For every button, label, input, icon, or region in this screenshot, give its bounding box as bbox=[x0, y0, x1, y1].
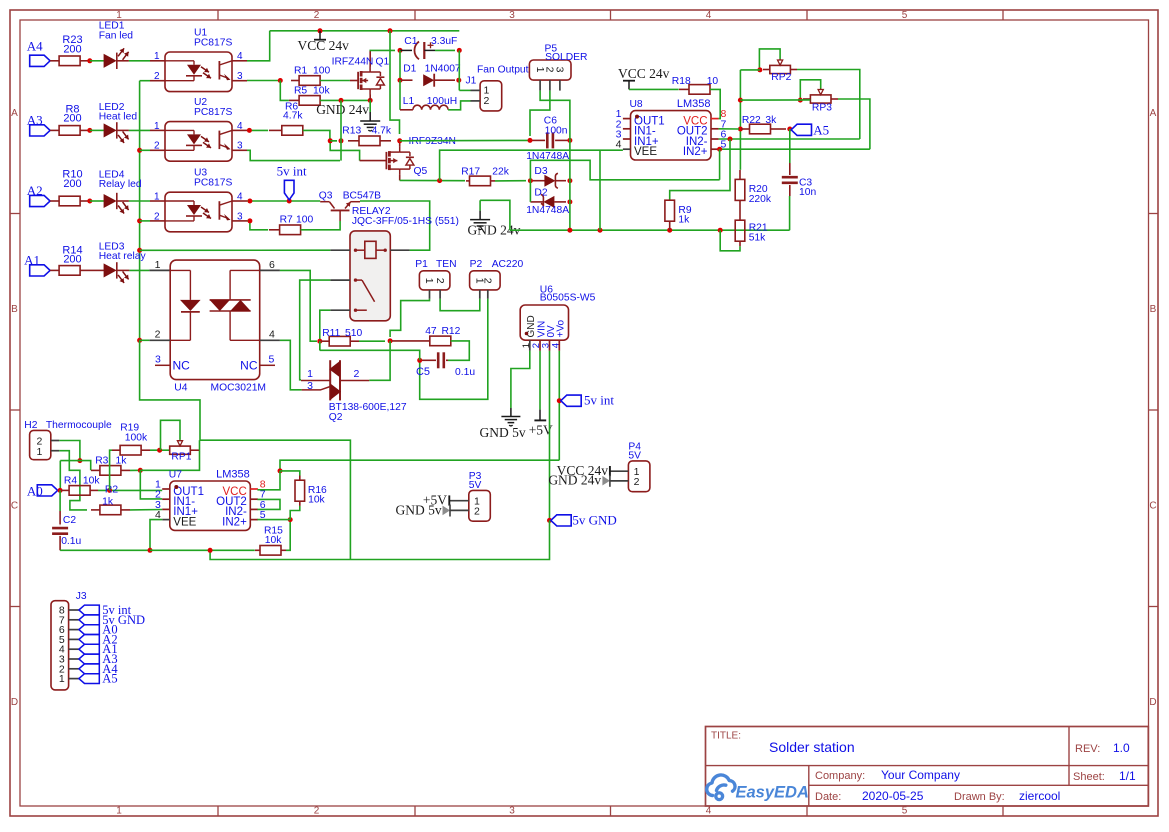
svg-text:3: 3 bbox=[554, 67, 566, 73]
wire R10 to LED4 bbox=[90, 200, 104, 202]
resistor R20 bbox=[735, 170, 772, 205]
diode D1 1N4007 bbox=[400, 63, 461, 86]
power flag VCC 24v (P4) bbox=[557, 463, 610, 478]
svg-text:2: 2 bbox=[314, 10, 320, 21]
svg-text:2: 2 bbox=[484, 95, 490, 107]
wire U3 pin2 from trunk bbox=[140, 220, 150, 222]
net flag 5v int (above Q3) bbox=[277, 163, 307, 200]
wire R11 right to snubber node bbox=[359, 340, 385, 342]
svg-text:4: 4 bbox=[237, 51, 243, 62]
svg-text:1: 1 bbox=[37, 446, 43, 458]
wire C1-D1 right vertical bbox=[458, 50, 460, 90]
wire R19 left down to pin1 wire bbox=[110, 450, 112, 490]
svg-text:RP2: RP2 bbox=[771, 72, 791, 83]
svg-text:R7: R7 bbox=[280, 214, 293, 225]
Sheet label bbox=[1073, 771, 1105, 783]
svg-text:1: 1 bbox=[154, 191, 160, 202]
wire R3 right to IN1- line bbox=[130, 469, 140, 471]
Drawn By value bbox=[1019, 789, 1060, 803]
svg-text:A: A bbox=[11, 108, 18, 119]
wire R6 to R13 left bbox=[303, 130, 337, 140]
wire A0 node down to C2 bbox=[59, 490, 61, 524]
Drawn By label bbox=[954, 791, 1005, 803]
wire snubber node down to Q2 T2 bbox=[369, 341, 390, 380]
svg-text:C2: C2 bbox=[63, 515, 76, 526]
resistor R6 bbox=[269, 101, 303, 135]
wire R4 right to U7 pin1 bbox=[98, 489, 162, 491]
wire C6 right rail down to GND rail bbox=[569, 136, 571, 230]
svg-text:RP3: RP3 bbox=[812, 102, 832, 113]
svg-text:Date:: Date: bbox=[815, 791, 841, 803]
resistor R16 bbox=[295, 476, 327, 506]
wire P1 pin2 to P2 pin1 bbox=[440, 299, 480, 311]
wire R1 to Q1 gate bbox=[320, 80, 358, 82]
svg-text:A1: A1 bbox=[24, 253, 40, 268]
svg-text:A5: A5 bbox=[102, 672, 117, 686]
resistor R23 bbox=[59, 34, 90, 65]
junction rail at rail2 jog bbox=[208, 548, 213, 553]
optocoupler U2 bbox=[150, 97, 247, 161]
resistor R17 bbox=[461, 166, 510, 185]
junction RP3 left bbox=[798, 98, 803, 103]
junction IN1- node bbox=[138, 468, 143, 473]
junction D1 right bbox=[456, 78, 461, 83]
svg-text:3: 3 bbox=[509, 806, 515, 817]
svg-text:2: 2 bbox=[314, 806, 320, 817]
Sheet value 1/1 bbox=[1119, 769, 1136, 783]
Date label bbox=[815, 791, 841, 803]
junction D1 left bbox=[398, 78, 403, 83]
dc-dc converter U6 B0505S-W5 bbox=[520, 284, 595, 351]
svg-text:Company:: Company: bbox=[815, 770, 865, 782]
svg-text:GND 5v: GND 5v bbox=[395, 502, 441, 517]
svg-text:J1: J1 bbox=[466, 75, 477, 86]
svg-text:2: 2 bbox=[154, 71, 160, 82]
svg-text:3: 3 bbox=[155, 353, 161, 365]
wire RP3 feed from trunk bbox=[740, 99, 810, 101]
svg-text:51k: 51k bbox=[749, 233, 766, 244]
wire relay coil left to trunk bbox=[140, 249, 331, 251]
junction after R23 bbox=[87, 58, 92, 63]
junction C6 left bbox=[528, 138, 533, 143]
svg-text:10k: 10k bbox=[83, 476, 100, 487]
junction Q1 source bbox=[368, 98, 373, 103]
svg-text:VCC 24v: VCC 24v bbox=[618, 66, 670, 81]
svg-text:BC547B: BC547B bbox=[343, 190, 381, 201]
svg-text:2: 2 bbox=[474, 505, 480, 517]
svg-text:PC817S: PC817S bbox=[194, 178, 232, 189]
svg-text:Drawn By:: Drawn By: bbox=[954, 791, 1005, 803]
wire R19 right to RP1 bbox=[150, 449, 170, 451]
svg-text:AC220: AC220 bbox=[492, 259, 524, 270]
junction rail at C6 branch bbox=[567, 228, 572, 233]
svg-text:LM358: LM358 bbox=[216, 469, 250, 481]
svg-text:Solder station: Solder station bbox=[769, 739, 855, 755]
wire U2 pin2 from trunk bbox=[140, 149, 150, 151]
capacitor C5 bbox=[416, 352, 475, 378]
svg-text:2: 2 bbox=[634, 476, 640, 488]
power flag GND 24v (P4) bbox=[548, 473, 610, 488]
svg-text:A0: A0 bbox=[27, 483, 43, 498]
zener D2 1N4748A bbox=[526, 187, 569, 215]
potentiometer RP3 bbox=[803, 89, 838, 114]
svg-text:C: C bbox=[11, 501, 18, 512]
wire relay common to Q2 T1 bbox=[300, 280, 331, 380]
svg-text:R13: R13 bbox=[342, 126, 361, 137]
svg-text:R22: R22 bbox=[742, 115, 761, 126]
wire P2 pin2 to C5 left bbox=[420, 299, 488, 400]
svg-text:U8: U8 bbox=[630, 99, 643, 110]
svg-text:5: 5 bbox=[269, 353, 275, 365]
wire U6 pin4 +Vo down to rail1 bbox=[558, 351, 560, 460]
junction after R10 bbox=[87, 199, 92, 204]
junction trunk at relay coil branch bbox=[137, 248, 142, 253]
junction H2 pin2 node bbox=[77, 458, 82, 463]
junction U1 pin3 node bbox=[278, 78, 283, 83]
wire U3 pin3 to R7 bbox=[247, 221, 268, 230]
junction rail at R9 bbox=[667, 228, 672, 233]
svg-text:5v GND: 5v GND bbox=[572, 512, 616, 527]
svg-text:4: 4 bbox=[237, 121, 243, 132]
wire U7 pin7-pin6 follower loop bbox=[257, 499, 280, 509]
wire A5 node down through C3 to rail bbox=[789, 129, 791, 230]
wire IN2+ sense route bbox=[530, 160, 719, 180]
capacitor C1 bbox=[400, 36, 457, 59]
wire C5 left up to R11 row bbox=[320, 350, 420, 360]
net flag A2 bbox=[27, 183, 50, 206]
svg-text:IN2+: IN2+ bbox=[222, 516, 247, 528]
svg-text:1: 1 bbox=[116, 10, 122, 21]
wire RP1 wiper loop bbox=[161, 420, 181, 450]
svg-text:1: 1 bbox=[116, 806, 122, 817]
net flag A4 bbox=[27, 39, 50, 67]
junction 5v int tap right bbox=[557, 398, 562, 403]
connector J3 with net flags bbox=[51, 591, 145, 690]
svg-text:100uH: 100uH bbox=[427, 96, 457, 107]
svg-text:VCC 24v: VCC 24v bbox=[298, 38, 350, 53]
svg-text:4: 4 bbox=[269, 329, 275, 341]
svg-text:IRFZ44N: IRFZ44N bbox=[332, 56, 374, 67]
svg-text:2020-05-25: 2020-05-25 bbox=[862, 789, 924, 803]
svg-text:220k: 220k bbox=[749, 194, 772, 205]
svg-text:1k: 1k bbox=[116, 455, 128, 466]
wire drain node up to VEE feed bbox=[440, 150, 623, 180]
svg-text:R3: R3 bbox=[95, 455, 108, 466]
svg-text:3: 3 bbox=[237, 71, 243, 82]
power flag +5V (P3) bbox=[423, 492, 449, 507]
wire U7 pin4 to rail bbox=[150, 520, 162, 551]
net flag 5v int (right) bbox=[561, 393, 615, 408]
svg-text:A3: A3 bbox=[27, 113, 43, 128]
junction rail at U8 VEE branch bbox=[598, 228, 603, 233]
wire U1 pin2 from trunk bbox=[140, 80, 150, 82]
svg-text:1N4748A: 1N4748A bbox=[526, 205, 569, 216]
junction Q5 drain node bbox=[437, 178, 442, 183]
svg-text:A2: A2 bbox=[27, 183, 43, 198]
potentiometer RP2 bbox=[763, 59, 797, 83]
wire P5 pin2 to C6 left bbox=[530, 91, 550, 136]
transistor Q5 IRF9Z34N bbox=[360, 136, 456, 181]
svg-text:2: 2 bbox=[155, 329, 161, 341]
junction R13 right / Q5 source bbox=[397, 138, 402, 143]
svg-text:B: B bbox=[11, 304, 18, 315]
svg-text:10n: 10n bbox=[799, 187, 816, 198]
junction U2 pin4 node bbox=[247, 128, 252, 133]
wire H2 pin1 route bbox=[59, 451, 87, 510]
wire U1 pin3 to R1 bbox=[247, 80, 280, 82]
junction R11 left node bbox=[317, 339, 322, 344]
svg-text:R4: R4 bbox=[64, 476, 77, 487]
title text Solder station bbox=[769, 739, 855, 755]
svg-text:200: 200 bbox=[63, 44, 81, 56]
wire LED1 to U1 pin1 bbox=[117, 60, 150, 62]
transistor Q3 BC547B bbox=[319, 190, 381, 221]
svg-text:4: 4 bbox=[706, 806, 712, 817]
wire GND 24v rail bbox=[510, 229, 790, 231]
power flag GND 5v (U6) bbox=[480, 408, 526, 440]
svg-text:100n: 100n bbox=[545, 125, 568, 136]
svg-text:C: C bbox=[1149, 501, 1156, 512]
wire R15 right up to pin5 bbox=[286, 520, 290, 551]
wire Q1 drain up bbox=[369, 49, 372, 51]
wire R13 node zigzag to Q5 gate bbox=[330, 141, 359, 161]
svg-text:2: 2 bbox=[354, 368, 360, 380]
svg-text:A4: A4 bbox=[27, 39, 43, 54]
LED LED2 bbox=[99, 102, 138, 143]
wire D1 left down to L1 bbox=[399, 80, 401, 110]
wire R8 to LED2 bbox=[90, 129, 104, 131]
svg-text:47: 47 bbox=[425, 326, 437, 337]
svg-text:JQC-3FF/05-1HS (551): JQC-3FF/05-1HS (551) bbox=[352, 216, 459, 227]
wire U2 pin3 to Q5 gate line bbox=[247, 150, 340, 160]
svg-text:2: 2 bbox=[434, 278, 446, 284]
svg-text:P1: P1 bbox=[415, 259, 428, 270]
resistor R14 bbox=[59, 244, 95, 275]
svg-text:22k: 22k bbox=[492, 166, 509, 177]
svg-text:4.7k: 4.7k bbox=[283, 111, 303, 122]
junction trunk at RP3 feed bbox=[738, 98, 743, 103]
wire U7 pin5 to node bbox=[257, 519, 290, 521]
resistor R10 bbox=[59, 169, 90, 206]
wire U8 pin6 row bbox=[719, 138, 860, 140]
net flag A0 bbox=[27, 483, 58, 498]
svg-text:510: 510 bbox=[345, 328, 362, 339]
resistor R3 bbox=[91, 455, 130, 475]
wire RP1 right up to GND line bbox=[199, 440, 202, 450]
LED D? LED1 bbox=[99, 21, 134, 69]
svg-text:MOC3021M: MOC3021M bbox=[211, 383, 267, 394]
junction C5 left bbox=[417, 358, 422, 363]
svg-text:Thermocouple: Thermocouple bbox=[46, 420, 112, 431]
wire VCC rail to Q5 source bbox=[390, 31, 400, 134]
LED LED4 bbox=[99, 169, 142, 213]
EasyEDA logo bbox=[707, 775, 809, 802]
svg-text:J3: J3 bbox=[76, 591, 87, 602]
resistor R15 bbox=[255, 526, 286, 556]
wire R23 to LED1 bbox=[90, 60, 104, 62]
svg-text:Relay led: Relay led bbox=[99, 179, 142, 190]
Company label bbox=[815, 770, 865, 782]
svg-text:+Vo: +Vo bbox=[556, 320, 567, 338]
wire C1 branch left bbox=[370, 49, 396, 51]
svg-text:R5: R5 bbox=[294, 86, 307, 97]
wire IN1- node to U7 pin2 bbox=[140, 470, 162, 499]
svg-text:4: 4 bbox=[706, 10, 712, 21]
wire R5 to junctions bbox=[320, 99, 370, 101]
power flag VCC 24v (U8) bbox=[618, 66, 670, 89]
svg-text:C5: C5 bbox=[416, 366, 430, 378]
wire RP3 right to pin5 riser bbox=[838, 99, 870, 149]
wire LED2 to U2 pin1 bbox=[117, 129, 150, 131]
svg-text:5V: 5V bbox=[469, 480, 482, 491]
svg-text:5: 5 bbox=[902, 10, 908, 21]
svg-text:IN2+: IN2+ bbox=[683, 146, 708, 158]
wire RP3 wiper loop bbox=[800, 80, 820, 100]
wire Q3 emitter to relay coil bbox=[360, 201, 430, 250]
wire A1 to R14 bbox=[50, 269, 59, 271]
svg-text:0.1u: 0.1u bbox=[455, 367, 475, 378]
zener D3 1N4748A bbox=[526, 151, 569, 188]
resistor R21 bbox=[735, 200, 768, 246]
potentiometer RP1 bbox=[170, 440, 192, 463]
relay RELAY2 JQC-3FF/05-1HS bbox=[330, 206, 459, 321]
svg-text:1: 1 bbox=[154, 121, 160, 132]
resistor R22 bbox=[741, 115, 786, 134]
wire R14 to LED3 bbox=[95, 269, 104, 271]
wire VCC 24v top rail bbox=[270, 30, 460, 32]
junction R5 row at R13 branch bbox=[339, 98, 344, 103]
wire U4 pin4 to Q2 gate bbox=[280, 340, 302, 390]
connector P2 AC220 bbox=[470, 259, 524, 299]
junction VCC rail at VCC flag bbox=[318, 28, 323, 33]
wire LED4 to U3 pin1 bbox=[117, 200, 150, 202]
capacitor C2 bbox=[52, 515, 81, 547]
op-amp U8 LM358 bbox=[616, 98, 727, 160]
power flag GND 24v (under R5) bbox=[316, 100, 380, 131]
junction C1 left bbox=[398, 48, 403, 53]
capacitor C6 bbox=[531, 116, 568, 149]
junction rail at R21 loop bbox=[718, 228, 723, 233]
svg-text:3: 3 bbox=[237, 141, 243, 152]
junction trunk at U3 pin2 bbox=[137, 218, 142, 223]
svg-text:4: 4 bbox=[616, 139, 622, 151]
junction rail at VEE bbox=[148, 548, 153, 553]
svg-text:EasyEDA: EasyEDA bbox=[736, 784, 809, 802]
wire Q5 drain row bbox=[400, 179, 465, 181]
svg-text:Fan Output: Fan Output bbox=[477, 65, 529, 76]
svg-text:5V: 5V bbox=[628, 451, 641, 462]
svg-text:4.7k: 4.7k bbox=[372, 126, 392, 137]
junction U7 pin5 node bbox=[288, 517, 293, 522]
wire R18 to U8 pin8 bbox=[710, 89, 720, 118]
svg-text:1: 1 bbox=[155, 259, 161, 271]
junction RP1 left bbox=[157, 448, 162, 453]
wire pin6 node to R9 top bbox=[670, 139, 730, 200]
wire 5v GND flag node bbox=[547, 518, 552, 523]
resistor R11 bbox=[321, 328, 362, 346]
wire VCC node to R16 top bbox=[280, 471, 300, 476]
svg-text:RP1: RP1 bbox=[171, 451, 191, 462]
wire U6 pin2 to +5V bbox=[539, 351, 541, 410]
svg-text:100k: 100k bbox=[125, 432, 148, 443]
wire LED3 to U4 pin1 bbox=[117, 269, 170, 271]
svg-text:GND 24v: GND 24v bbox=[316, 102, 369, 117]
svg-text:NC: NC bbox=[240, 359, 258, 373]
svg-text:3: 3 bbox=[509, 10, 515, 21]
REV label bbox=[1075, 743, 1100, 755]
junction trunk at R22 left bbox=[738, 127, 743, 132]
op-amp U7 LM358 bbox=[155, 469, 266, 531]
svg-text:GND 24v: GND 24v bbox=[548, 473, 601, 488]
wire RP2 wiper loop bbox=[759, 49, 780, 70]
svg-text:NC: NC bbox=[173, 359, 191, 373]
svg-text:Sheet:: Sheet: bbox=[1073, 771, 1105, 783]
junction trunk at U2 pin2 bbox=[137, 148, 142, 153]
resistor R5 bbox=[289, 86, 330, 106]
wire H2 pin2 route bbox=[59, 441, 80, 461]
svg-text:Your Company: Your Company bbox=[881, 768, 960, 782]
svg-text:1: 1 bbox=[154, 51, 160, 62]
wire P5 pin1 to C6 right bbox=[540, 91, 570, 136]
svg-text:100: 100 bbox=[296, 214, 313, 225]
wire R2 right to U7 pin3 bbox=[130, 509, 162, 511]
junction VCC rail at Q1 branch bbox=[388, 28, 393, 33]
wire R17 to D3 left bbox=[495, 180, 526, 182]
wire relay NO to R11 node bbox=[320, 310, 331, 350]
svg-text:3: 3 bbox=[307, 380, 313, 392]
wire U4 pin6 to R11 node bbox=[280, 270, 317, 341]
wire A3 to R8 bbox=[50, 129, 59, 131]
svg-text:ziercool: ziercool bbox=[1019, 789, 1060, 803]
svg-text:C1: C1 bbox=[404, 36, 417, 47]
wire R21 bottom loop to rail bbox=[720, 230, 740, 251]
wire U1 pin4 to VCC rail bbox=[247, 31, 270, 61]
wire GND rail2 bbox=[210, 520, 549, 559]
svg-text:R17: R17 bbox=[461, 166, 480, 177]
svg-text:2: 2 bbox=[482, 278, 494, 284]
wire U7 pin8 riser bbox=[257, 471, 280, 490]
wire pin6 to R16 bottom riser bbox=[290, 506, 300, 520]
junction A0 node bbox=[58, 488, 63, 493]
power flag GND 5v (P3) bbox=[395, 502, 450, 517]
svg-text:U4: U4 bbox=[174, 383, 187, 394]
net flag A1 bbox=[24, 253, 50, 277]
svg-text:3k: 3k bbox=[765, 115, 777, 126]
connector P5 SOLDER bbox=[529, 43, 587, 90]
svg-text:U7: U7 bbox=[169, 470, 182, 481]
optocoupler U1 bbox=[150, 28, 247, 92]
connector H2 Thermocouple bbox=[24, 420, 112, 460]
svg-text:5: 5 bbox=[902, 806, 908, 817]
wire GND symbol to rail bbox=[480, 200, 510, 230]
wire bottom rail bbox=[150, 549, 255, 551]
svg-text:1.0: 1.0 bbox=[1113, 741, 1130, 755]
wire +5V rail to U7 bbox=[280, 460, 559, 471]
svg-text:Q5: Q5 bbox=[414, 166, 428, 177]
svg-text:1: 1 bbox=[423, 278, 435, 284]
wire R11 left leg down bbox=[319, 341, 321, 350]
connector J1 Fan Output bbox=[466, 65, 529, 111]
svg-text:3.3uF: 3.3uF bbox=[431, 36, 457, 47]
junction R13 left bbox=[328, 100, 344, 160]
junction U3 pin3 node bbox=[247, 218, 252, 223]
wire C1 right bbox=[435, 49, 455, 51]
wire A4 to R23 bbox=[50, 60, 59, 62]
svg-text:5v int: 5v int bbox=[584, 393, 614, 408]
wire A2 to R10 bbox=[50, 200, 59, 202]
junction R22 right bbox=[787, 127, 792, 132]
net flag A5 bbox=[791, 122, 829, 137]
